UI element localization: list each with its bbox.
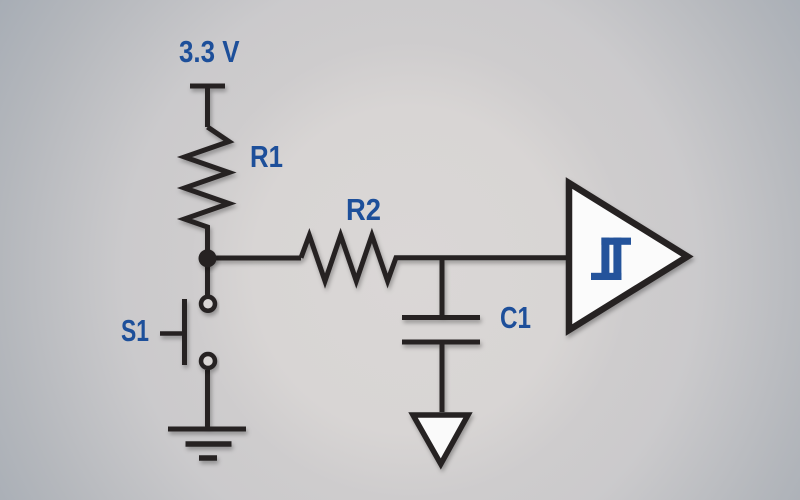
svg-text:3.3 V: 3.3 V <box>179 34 240 69</box>
svg-text:C1: C1 <box>500 300 531 335</box>
svg-text:S1: S1 <box>121 313 149 348</box>
svg-text:R2: R2 <box>346 192 381 227</box>
svg-text:R1: R1 <box>250 139 283 174</box>
